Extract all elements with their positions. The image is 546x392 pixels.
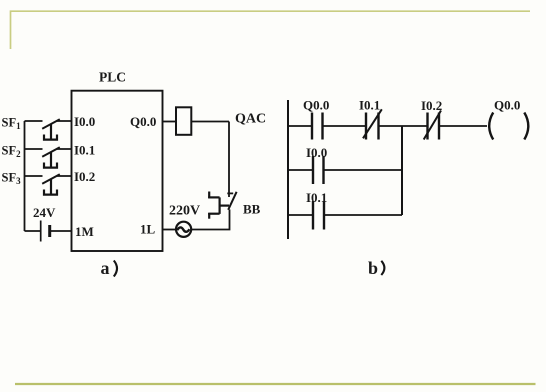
svg-text:1M: 1M	[75, 224, 94, 239]
svg-text:I0.1: I0.1	[74, 143, 95, 158]
svg-text:I0.1: I0.1	[359, 98, 380, 113]
wire left input bus	[24, 121, 26, 231]
svg-text:I0.2: I0.2	[74, 169, 95, 184]
svg-text:b: b	[368, 258, 378, 278]
AC source 220V	[176, 222, 191, 237]
power rail left (ladder)	[287, 100, 289, 239]
pushbutton SF3	[42, 174, 60, 195]
svg-text:PLC: PLC	[99, 70, 126, 85]
svg-text:I0.2: I0.2	[421, 98, 442, 113]
relay coil QAC	[176, 107, 191, 135]
battery 24V	[40, 221, 42, 242]
wire I0.0 input row	[25, 120, 72, 122]
pushbutton SF1	[42, 119, 60, 140]
wire right bus lower	[191, 210, 230, 230]
pushbutton BB (NC)	[208, 192, 236, 219]
contact Q0.0 (NO)	[312, 113, 323, 140]
wire right bus upper	[228, 122, 230, 198]
svg-text:1L: 1L	[140, 222, 156, 237]
wire 24V row	[25, 230, 72, 232]
svg-text:QAC: QAC	[235, 112, 266, 127]
wire rung 3	[288, 214, 402, 216]
contact I0.1 (NC)	[366, 113, 379, 140]
svg-text:SF2: SF2	[2, 144, 22, 160]
svg-text:220V: 220V	[169, 204, 200, 219]
pushbutton SF2	[42, 147, 60, 168]
svg-text:I0.0: I0.0	[74, 114, 95, 129]
PLC box U1	[72, 91, 163, 251]
svg-text:a: a	[101, 258, 110, 278]
svg-text:Q0.0: Q0.0	[494, 98, 520, 113]
wire coil to right bus	[191, 121, 229, 123]
svg-text:SF3: SF3	[2, 171, 22, 187]
svg-text:BB: BB	[243, 202, 261, 217]
svg-text:I0.0: I0.0	[306, 145, 327, 160]
contact I0.0 (NO)	[313, 156, 324, 184]
wire branch junction	[401, 126, 403, 215]
wire Q0.0 output	[163, 121, 177, 123]
svg-text:SF1: SF1	[2, 116, 22, 132]
wire I0.2 input row	[25, 175, 72, 177]
wire AC source to 1L	[163, 229, 176, 231]
wire rung 2	[288, 169, 402, 171]
contact I0.1 rung3 (NO)	[313, 201, 324, 230]
svg-text:Q0.0: Q0.0	[130, 114, 156, 129]
svg-text:Q0.0: Q0.0	[303, 98, 329, 113]
svg-text:I0.1: I0.1	[306, 190, 327, 205]
svg-text:24V: 24V	[33, 205, 56, 220]
coil Q0.0	[489, 113, 493, 140]
wire I0.1 input row	[25, 148, 72, 150]
wire rung 1	[288, 125, 487, 127]
contact I0.2 (NC)	[428, 113, 440, 140]
